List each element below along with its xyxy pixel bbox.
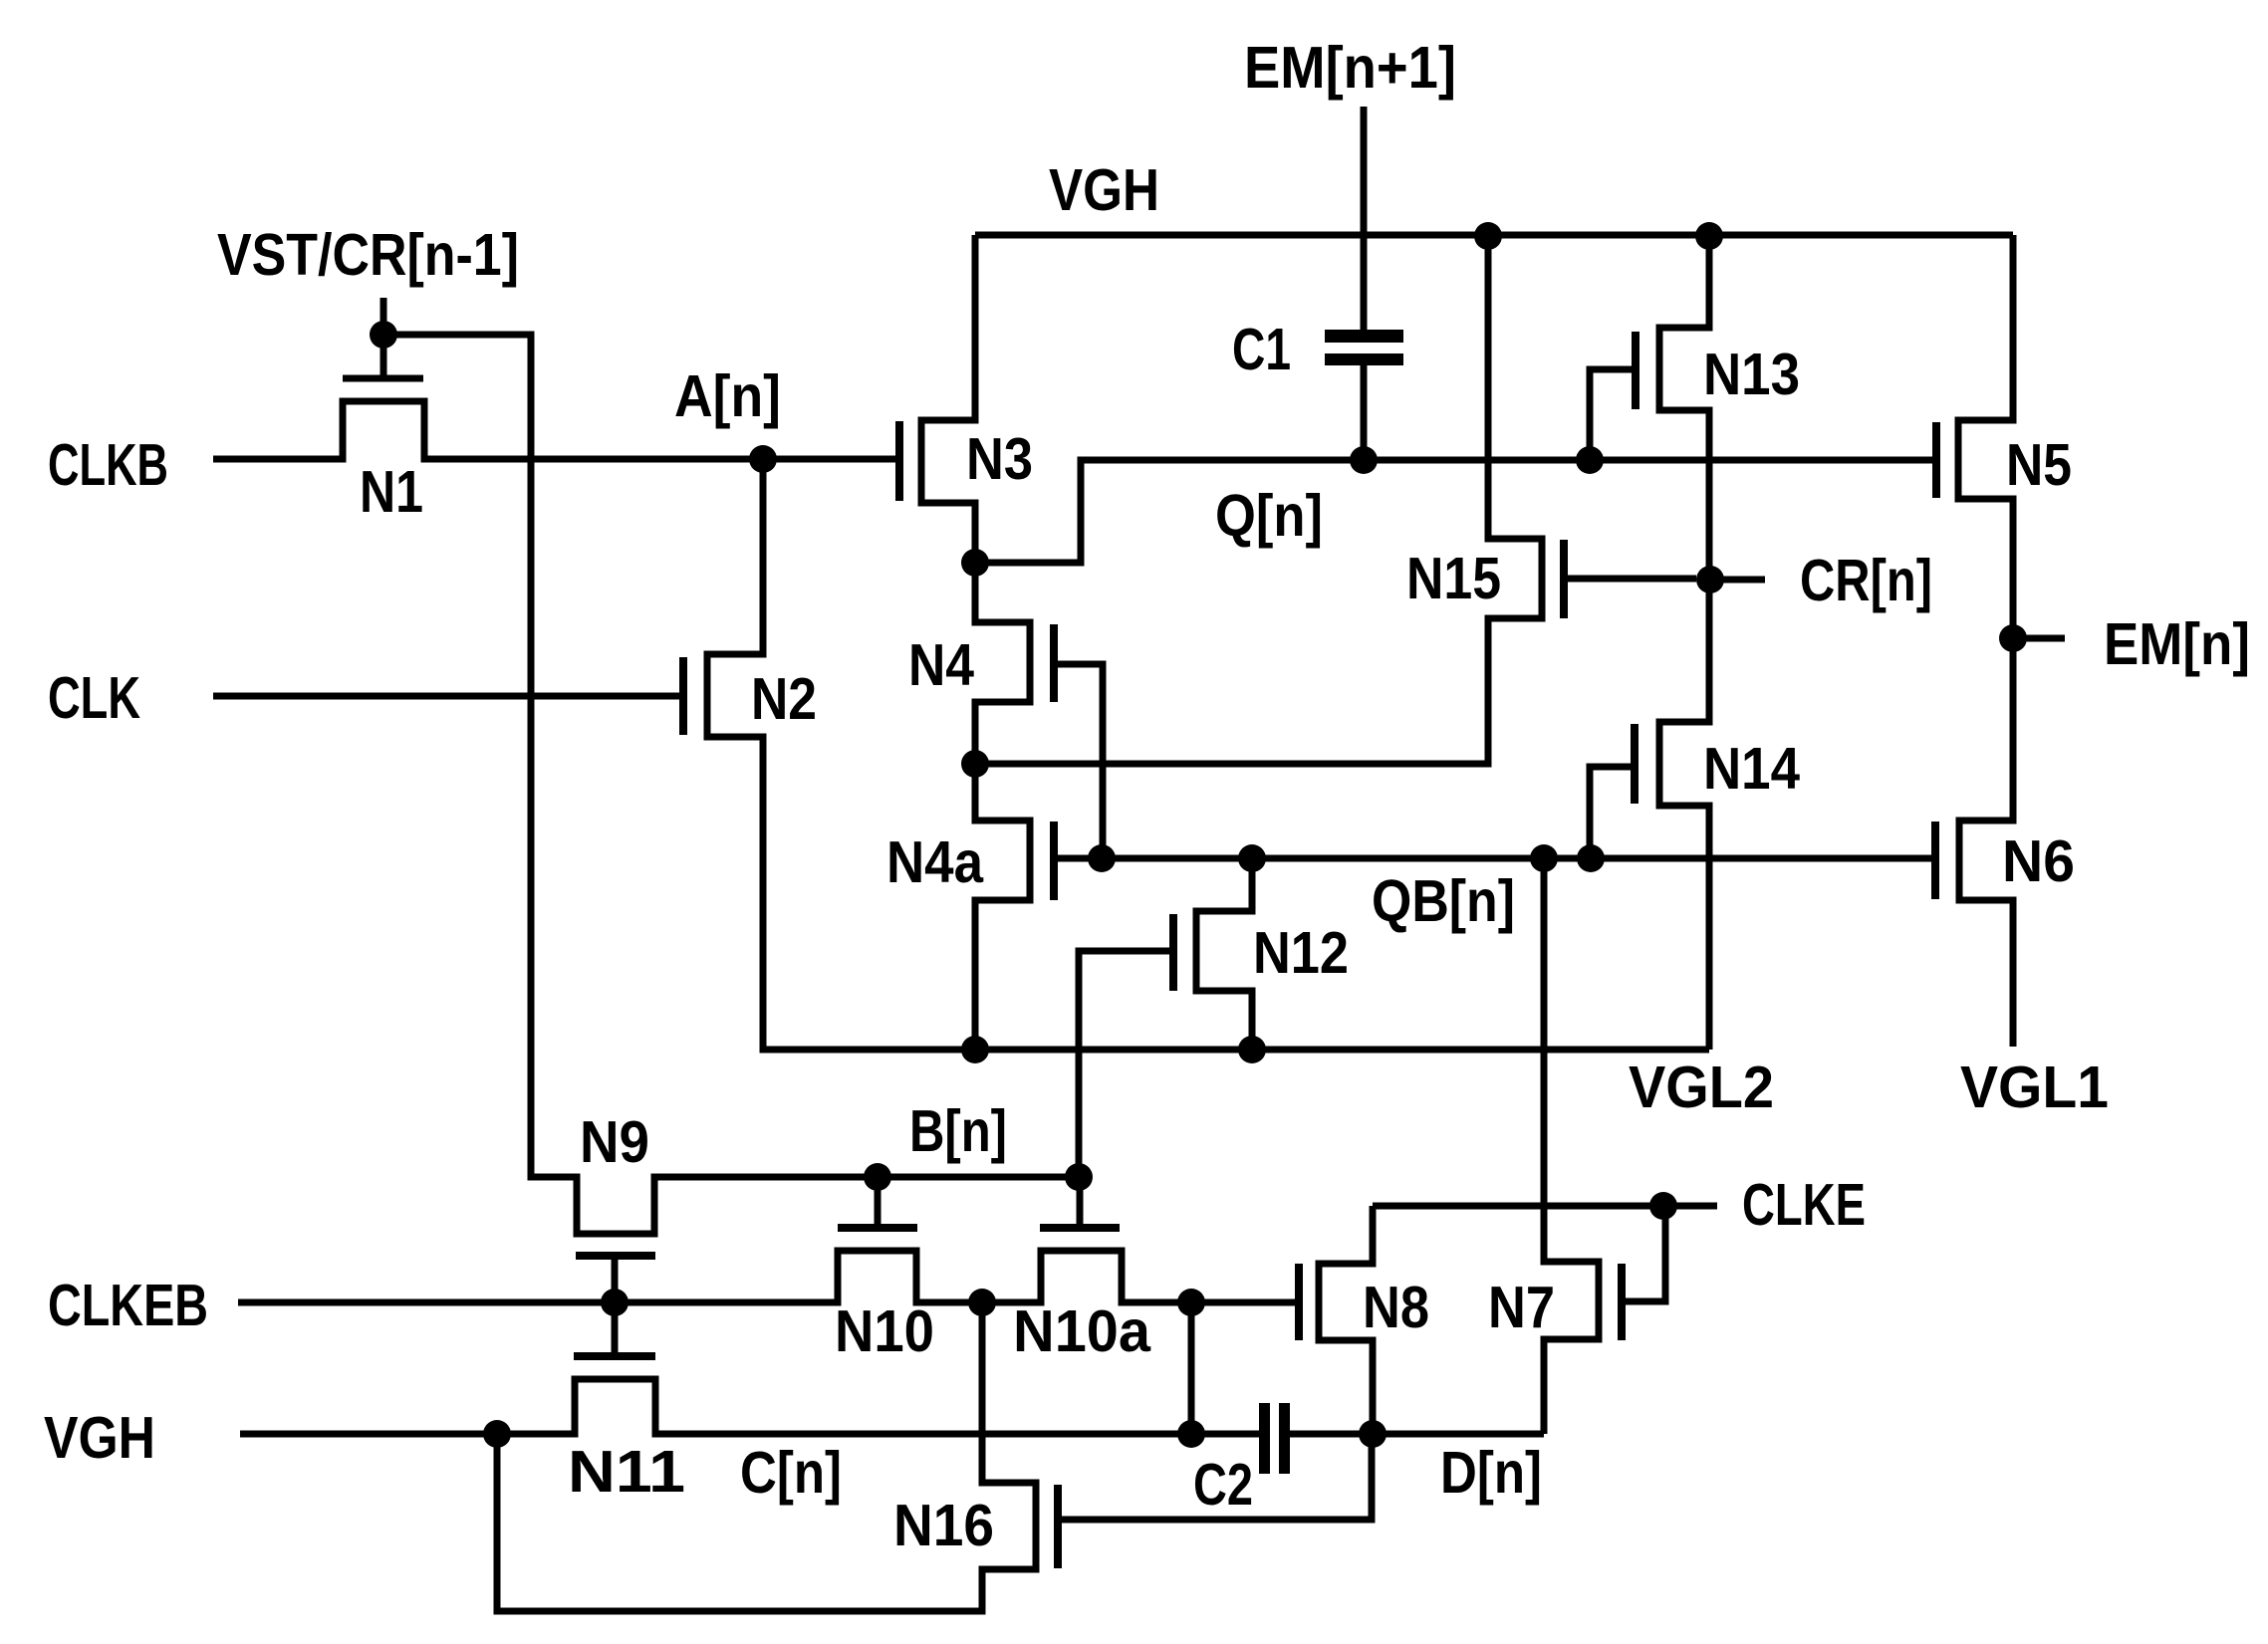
svg-text:VGH: VGH [1049, 157, 1159, 223]
wire N10a gate lead to B[n] node [1077, 1177, 1084, 1228]
wire C1 bottom plate to Q[n] node [1361, 365, 1368, 460]
wire QB node down through N12 channel to VGL2 rail [1196, 858, 1252, 1050]
wire N9 gate lead to CLKEB node [612, 1256, 619, 1302]
svg-text:EM[n]: EM[n] [2104, 611, 2250, 677]
transistor N1 gate bar [343, 375, 423, 382]
svg-text:C2: C2 [1193, 1452, 1253, 1518]
wire VGH down through N13 and N14 channels to VGL2 corner [1659, 235, 1709, 1050]
svg-text:N4: N4 [908, 632, 974, 698]
node VGH bottom / bottom rail branch [483, 1420, 511, 1448]
wire CLKB row through N1 channel to A[n] and N3 gate [213, 401, 895, 459]
wire CLKE row [1373, 1203, 1717, 1210]
node VGL2 rail / N12 source [1238, 1036, 1266, 1063]
wire C[n] node down through N16 channel and bottom rail to VGH node [497, 1302, 1036, 1611]
svg-text:N5: N5 [2006, 432, 2072, 498]
wire CLK row to N2 gate [213, 693, 679, 700]
transistor N14 gate bar [1631, 724, 1638, 804]
transistor N4a gate bar [1050, 822, 1058, 900]
svg-text:C[n]: C[n] [740, 1440, 842, 1506]
svg-text:CR[n]: CR[n] [1800, 548, 1932, 613]
svg-text:VGL2: VGL2 [1629, 1055, 1774, 1120]
svg-text:N12: N12 [1253, 920, 1349, 986]
node A[n] [749, 445, 777, 473]
svg-text:CLKE: CLKE [1742, 1172, 1866, 1238]
wire VST node to N9 channel and B[n] row (N9 source-drain bump) [383, 335, 1079, 1234]
svg-text:CLKB: CLKB [48, 432, 168, 498]
wire N14 gate lead riser to QB node [1590, 767, 1631, 858]
node VST/CR[n-1] junction [370, 321, 397, 349]
wire VGH top rail [975, 232, 2013, 239]
svg-text:CLKEB: CLKEB [48, 1273, 208, 1338]
node VGL2 rail / N4a source [961, 1036, 989, 1063]
node EM[n] output [1999, 624, 2027, 652]
transistor N4 gate bar [1050, 624, 1058, 702]
node QB[n] / N4a gate [1088, 844, 1116, 872]
wire D[n] row from C2 to N7 source [1290, 1431, 1544, 1438]
capacitor C2 left plate [1259, 1403, 1270, 1474]
svg-text:N16: N16 [893, 1493, 994, 1558]
wire N10 gate lead to B[n] node [875, 1177, 882, 1228]
svg-text:VGL1: VGL1 [1960, 1055, 2109, 1120]
transistor N10 gate bar [838, 1224, 917, 1232]
transistor N11 gate bar [574, 1352, 655, 1360]
svg-text:N15: N15 [1406, 546, 1501, 611]
svg-text:N10: N10 [835, 1298, 934, 1364]
node B[n] / N10 gate [864, 1163, 891, 1191]
svg-text:N2: N2 [751, 666, 817, 732]
svg-text:B[n]: B[n] [909, 1098, 1007, 1164]
node Q[n] / N13 gate [1576, 446, 1604, 474]
svg-text:CLK: CLK [48, 665, 140, 731]
capacitor C1 top plate [1325, 330, 1403, 343]
svg-text:N8: N8 [1363, 1275, 1429, 1340]
wire N16 gate lead riser to D[n] node [1062, 1434, 1372, 1520]
capacitor C1 bottom plate [1325, 353, 1403, 365]
node N4 source [961, 750, 989, 778]
svg-text:N9: N9 [580, 1109, 649, 1175]
wire N12 gate lead riser to B[n] node [1079, 951, 1169, 1177]
svg-text:C1: C1 [1232, 317, 1291, 382]
wire N10a output riser to VGH bottom row [1188, 1302, 1195, 1434]
wire N11 gate lead to CLKEB node [612, 1302, 619, 1356]
wire VGH right drop through N5 and N6 channels to VGL1 terminal [1958, 235, 2013, 1047]
node VGH rail / N13 drain [1695, 222, 1723, 250]
wire CLKEB row through N10 and N10a channels to N8 gate [238, 1251, 1295, 1302]
wire N7 gate lead riser to CLKE node [1626, 1206, 1665, 1301]
node D[n] / N8 source [1359, 1420, 1386, 1448]
node QB[n] / N7 drain branch [1530, 844, 1558, 872]
wire N1 gate lead [380, 335, 387, 378]
transistor N13 gate bar [1632, 332, 1639, 409]
svg-text:N10a: N10a [1013, 1298, 1151, 1364]
transistor N10a gate bar [1040, 1224, 1120, 1232]
wire EM[n+1] input to C1 top plate [1361, 107, 1368, 330]
wire VGH bottom row through N11 channel to C2 left plate [240, 1379, 1259, 1434]
transistor N8 gate bar [1295, 1264, 1303, 1340]
svg-text:N6: N6 [2002, 828, 2075, 894]
capacitor C2 right plate [1279, 1403, 1290, 1474]
wire VGH down through N3, N4, N4a channels to VGL2 rail [921, 235, 1030, 1050]
transistor N2 gate bar [679, 657, 687, 735]
node QB[n] / N14 gate [1577, 844, 1605, 872]
svg-text:N1: N1 [360, 459, 423, 525]
transistor N6 gate bar [1931, 822, 1939, 899]
node N3 source / Q[n] branch [961, 549, 989, 577]
svg-text:VGH: VGH [44, 1405, 155, 1471]
svg-text:EM[n+1]: EM[n+1] [1244, 35, 1456, 101]
node VGH bottom row junction [1177, 1420, 1205, 1448]
svg-text:Q[n]: Q[n] [1215, 483, 1323, 549]
wire QB node down through N7 channel to D[n] row [1544, 858, 1599, 1434]
wire N15 gate lead to CR node [1568, 576, 1696, 583]
wire N13 gate lead riser to Q[n] node [1590, 369, 1632, 460]
wire A[n] node down through N2 channel to VGL2 rail [707, 459, 1709, 1050]
transistor N15 gate bar [1560, 540, 1568, 618]
svg-text:QB[n]: QB[n] [1372, 868, 1515, 934]
svg-text:A[n]: A[n] [674, 363, 781, 429]
transistor N12 gate bar [1169, 914, 1177, 991]
wire EM[n] output stub [2013, 635, 2065, 642]
node CR[n] / N15 gate [1696, 566, 1724, 593]
wire N4a gate lead [1058, 855, 1089, 862]
node VGH rail / N15 drain [1474, 222, 1502, 250]
node C[n] / N10-N10a junction [968, 1289, 996, 1316]
transistor N9 gate bar [576, 1252, 655, 1260]
node B[n] / N12 gate branch [1065, 1163, 1093, 1191]
wire Q[n] row from N3 source to N5 gate [975, 460, 1932, 563]
transistor N16 gate bar [1054, 1485, 1062, 1568]
wire CR[n] output stub [1710, 577, 1765, 584]
svg-text:N14: N14 [1703, 736, 1800, 802]
node QB[n] / N12 drain [1238, 844, 1266, 872]
node CLKE / N7 gate branch [1649, 1192, 1677, 1220]
svg-text:N4a: N4a [886, 829, 984, 895]
svg-text:VST/CR[n-1]: VST/CR[n-1] [217, 222, 519, 288]
transistor N3 gate bar [895, 421, 903, 501]
svg-text:N3: N3 [966, 426, 1033, 492]
node CLKEB / N9 N11 gates [601, 1289, 629, 1316]
wire QB[n] row to N6 gate [1102, 855, 1931, 862]
wire VST/CR[n-1] input lead [380, 298, 387, 335]
transistor N5 gate bar [1932, 422, 1940, 498]
svg-text:D[n]: D[n] [1440, 1440, 1542, 1506]
node N10a output junction [1177, 1289, 1205, 1316]
wire N4 source row through N15 channel up to VGH node [975, 236, 1542, 764]
node Q[n] / C1 bottom [1350, 446, 1378, 474]
wire N4 gate lead riser to QB node [1058, 664, 1103, 858]
wire CLKE corner down through N8 channel to D[n] node [1319, 1206, 1373, 1434]
svg-text:N13: N13 [1703, 342, 1800, 407]
svg-text:N7: N7 [1488, 1275, 1555, 1340]
transistor N7 gate bar [1618, 1264, 1626, 1340]
svg-text:N11: N11 [568, 1439, 685, 1505]
